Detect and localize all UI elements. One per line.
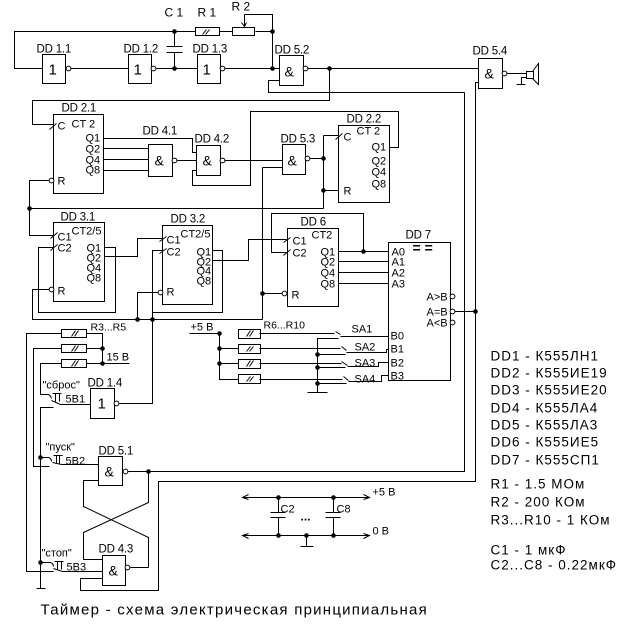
junction DD6 Q1	[361, 249, 366, 254]
potentiometer R2	[233, 28, 255, 36]
wire DD2.1 Q2 to DD4.1	[104, 148, 149, 150]
svg-text:DD 1.3: DD 1.3	[193, 44, 228, 56]
svg-text:&: &	[105, 464, 115, 480]
svg-text:&: &	[109, 563, 119, 579]
capacitor C8	[326, 498, 341, 536]
switch SA2 lever	[342, 347, 347, 351]
svg-text:R2 - 200 КОм: R2 - 200 КОм	[491, 495, 586, 510]
svg-text:CT 2: CT 2	[357, 126, 381, 138]
wire R2 wiper to right node	[245, 15, 273, 69]
svg-text:Q8: Q8	[87, 273, 102, 285]
DD6 R bubble	[282, 291, 287, 296]
wire node to DD5.3 output net	[30, 208, 324, 210]
svg-text:C: C	[58, 121, 66, 133]
inverter DD1.3	[198, 55, 221, 84]
wire DD6 Q2 to A1	[339, 261, 389, 263]
svg-text:Q1: Q1	[372, 142, 387, 154]
stub SA2 ground	[318, 354, 346, 356]
wire +5V feed	[190, 334, 239, 380]
svg-text:SA3: SA3	[355, 358, 376, 370]
DD3.2 R bubble	[158, 290, 163, 295]
svg-text:DD 4.2: DD 4.2	[195, 134, 230, 146]
+5V decoupling rail	[243, 497, 370, 499]
nand gate DD5.3	[283, 145, 306, 175]
svg-text:&: &	[288, 153, 298, 169]
svg-text:"пуск": "пуск"	[46, 442, 76, 454]
svg-text:R6...R10: R6...R10	[264, 320, 306, 332]
DD2.2 clock edge tick	[336, 134, 343, 140]
junction DD3.2 R on rail	[135, 317, 140, 322]
svg-text:SA1: SA1	[352, 324, 373, 336]
DD2.1 clock edge tick	[50, 124, 57, 130]
inverter DD1.2	[129, 55, 152, 84]
svg-text:C2: C2	[58, 243, 72, 255]
wire R7 left	[220, 348, 239, 350]
svg-text:DD 6: DD 6	[301, 217, 326, 229]
svg-text:DD 3.1: DD 3.1	[61, 212, 96, 224]
junction DD6 R	[260, 291, 265, 296]
junction ground 0V	[304, 533, 309, 538]
svg-text:B2: B2	[391, 358, 404, 370]
wire DD5.3 in2 from reset line	[263, 168, 283, 320]
wire DD4.2 in3 from DD2.2 Q1 feedback	[193, 112, 399, 186]
counter DD2.2	[339, 126, 390, 203]
svg-text:C: C	[344, 132, 352, 144]
wire SB2 to DD5.1	[62, 464, 99, 466]
junction R4 right	[100, 346, 105, 351]
junction C8 top	[331, 495, 336, 500]
junction +5 top	[217, 331, 222, 336]
svg-text:R1 - 1.5 МОм: R1 - 1.5 МОм	[491, 477, 586, 492]
ground bar for switch rail	[308, 392, 328, 394]
junction +5 r7	[217, 346, 222, 351]
pushbutton SB1	[49, 395, 52, 399]
svg-text:C 1: C 1	[165, 6, 184, 20]
svg-text:DD 2.1: DD 2.1	[62, 103, 97, 115]
svg-text:CT 2: CT 2	[72, 119, 96, 131]
wire DD5.3 out node	[310, 136, 339, 209]
wire SA2 to B1	[347, 350, 389, 353]
resistor R8	[239, 360, 261, 369]
svg-text:+5 В: +5 В	[373, 487, 396, 499]
DD3.1 C2 edge tick	[51, 245, 58, 251]
wire SB1 to DD1.4	[61, 404, 91, 406]
wire DD3.1 R to reset rail	[33, 290, 263, 320]
nand gate DD4.3	[103, 556, 126, 586]
wire DD3.2 Q2 to DD6 C1	[213, 240, 288, 261]
svg-text:B3: B3	[391, 371, 404, 383]
svg-text:DD 5.3: DD 5.3	[281, 134, 316, 146]
comparator DD7	[389, 243, 451, 381]
svg-text:R: R	[58, 286, 66, 298]
svg-text:C2...С8 - 0.22мкФ: C2...С8 - 0.22мкФ	[491, 558, 618, 573]
svg-text:DD 2.2: DD 2.2	[347, 114, 382, 126]
wire DD1.1 out to DD1.2 in	[71, 68, 129, 70]
svg-text:5В2: 5В2	[66, 456, 86, 468]
svg-text:...: ...	[301, 510, 311, 524]
junction +5 r8	[217, 361, 222, 366]
junction C2 top	[276, 495, 281, 500]
svg-text:C1 - 1 мкФ: C1 - 1 мкФ	[491, 543, 567, 558]
svg-text:Q8: Q8	[321, 279, 336, 291]
junction A=B	[473, 309, 478, 314]
DD3.2 C1 edge tick	[160, 237, 167, 242]
wire DD1.2 out to DD1.3 in	[157, 68, 198, 70]
wire DD4.1 out to DD4.2 in2	[178, 160, 197, 162]
switch SA3 lever	[342, 362, 348, 366]
counter DD2.1	[54, 115, 104, 194]
svg-text:DD 4.3: DD 4.3	[99, 544, 134, 556]
switch SA4 lever	[344, 377, 349, 381]
stub SA4 ground	[318, 383, 347, 385]
wire DD5.1 out long to DD5.2 branch	[128, 93, 465, 472]
counter DD3.2	[163, 226, 213, 305]
junction C1 bottom	[172, 66, 177, 71]
svg-text:Q8: Q8	[197, 276, 212, 288]
svg-text:DD4 - К555ЛА4: DD4 - К555ЛА4	[491, 401, 599, 416]
wire cross-couple DD5.1 out to DD4.3 in	[84, 472, 149, 560]
wire DD5.2 in2 from A-equal-B trigger line	[269, 81, 465, 93]
wire R9 to switch SA4	[260, 379, 343, 381]
wire SB1 ground branch	[41, 408, 54, 589]
DD3.1 R bubble	[49, 287, 54, 292]
svg-text:DD7 - К555СП1: DD7 - К555СП1	[491, 453, 600, 468]
svg-text:C1: C1	[293, 236, 307, 248]
svg-text:SA4: SA4	[355, 374, 376, 386]
capacitor C1	[167, 32, 183, 69]
wire DD4.3 out	[131, 567, 149, 569]
svg-text:DD5 - К555ЛА3: DD5 - К555ЛА3	[491, 418, 599, 433]
svg-text:R3...R10 - 1 КОм: R3...R10 - 1 КОм	[491, 513, 611, 528]
junction SB3 ground	[38, 560, 43, 565]
svg-text:DD 4.1: DD 4.1	[143, 126, 178, 138]
wire DD1.3 out to DD5.2 input	[223, 68, 280, 70]
svg-text:R3...R5: R3...R5	[91, 322, 127, 334]
wire R5 down to SB1	[41, 364, 62, 395]
svg-text:DD2 - К555ИЕ19: DD2 - К555ИЕ19	[491, 366, 608, 381]
wire SA3 to B2	[348, 363, 389, 367]
svg-text:DD 5.2: DD 5.2	[275, 45, 310, 57]
resistor R5	[62, 360, 87, 368]
svg-text:R: R	[167, 287, 175, 299]
0V rail	[243, 535, 370, 537]
nand gate DD5.1	[99, 457, 123, 486]
svg-text:C2: C2	[281, 504, 295, 516]
nand gate DD4.1	[149, 145, 173, 177]
wire R8 to switch SA3	[260, 363, 342, 365]
nand gate DD4.2	[197, 146, 221, 176]
svg-text:&: &	[285, 64, 295, 80]
wire DD6 Q1 to C2 loop and A0	[272, 214, 389, 253]
wire R3-R5 right common	[87, 334, 130, 364]
wire DD4.3 in3 from A=B	[81, 312, 476, 591]
svg-text:SA2: SA2	[355, 342, 376, 354]
switch common ground rail	[318, 339, 339, 393]
svg-text:R: R	[292, 290, 300, 302]
wire R1 to R2	[220, 31, 233, 33]
DD3.2 C2 edge tick	[160, 249, 167, 254]
wire DD2.1 R to reset node	[30, 181, 54, 236]
junction R5 right	[100, 361, 105, 366]
resistor R3	[62, 330, 87, 338]
svg-text:A3: A3	[392, 279, 405, 291]
wire DD6 Q8 to A3	[339, 283, 389, 285]
inverter DD1.4	[91, 389, 115, 419]
wire SB3 to DD4.3	[63, 571, 103, 573]
wire DD3.1 Q1 to C2 loop	[39, 248, 116, 313]
wire SB3 upper from ground chain	[41, 562, 51, 564]
DD7 A>B bubble	[450, 294, 455, 299]
wire DD5.2 out to DD5.4 in1	[308, 68, 479, 70]
svg-text:R 2: R 2	[232, 0, 251, 14]
resistor R1	[196, 28, 220, 36]
svg-text:1: 1	[203, 62, 211, 79]
svg-text:&: &	[155, 153, 165, 169]
svg-text:Таймер - схема электрическая п: Таймер - схема электрическая принципиаль…	[41, 602, 428, 619]
junction R2 right	[270, 29, 275, 34]
counter DD6	[288, 229, 339, 307]
stub SA3 ground	[318, 367, 346, 369]
svg-text:R 1: R 1	[198, 6, 217, 20]
svg-text:DD 3.2: DD 3.2	[171, 214, 206, 226]
svg-text:1: 1	[98, 396, 106, 413]
pushbutton SB3	[51, 563, 54, 567]
wire DD6 Q4 to A2	[339, 272, 389, 274]
resistor R4	[62, 345, 87, 353]
wire DD3.2 R to reset rail	[138, 293, 158, 320]
svg-text:15 В: 15 В	[107, 352, 130, 364]
svg-text:A<B: A<B	[427, 318, 448, 330]
junction DD5.2 out branch	[327, 66, 332, 71]
svg-text:C2: C2	[167, 247, 181, 259]
svg-text:B1: B1	[391, 344, 404, 356]
svg-text:1: 1	[49, 62, 57, 79]
junction SB2 ground	[38, 455, 43, 460]
DD6 C1 edge tick	[284, 238, 291, 243]
svg-text:==: ==	[413, 240, 437, 256]
capacitor C2	[271, 498, 286, 536]
svg-text:CT2: CT2	[312, 230, 333, 242]
wire: feedback top rail from C1 node to DD1.1 input	[15, 32, 196, 69]
junction DD5.3 out	[321, 156, 326, 161]
junction DD1.4 output on rail	[150, 317, 155, 322]
svg-text:DD6 - К555ИЕ5: DD6 - К555ИЕ5	[491, 435, 600, 450]
DD7 A=B bubble	[450, 309, 455, 314]
wire R7 to switch SA2	[260, 348, 341, 350]
svg-text:Q8: Q8	[86, 165, 101, 177]
wire DD3.2 Q1 to C2 loop	[153, 251, 223, 313]
pushbutton SB2	[49, 458, 52, 462]
DD6 C2 edge tick	[284, 250, 291, 256]
svg-text:"сброс": "сброс"	[43, 380, 80, 392]
svg-text:C2: C2	[293, 248, 307, 260]
wire DD2.1 Q8 to DD4.1	[104, 170, 149, 172]
DD2.1 R bubble	[49, 178, 54, 183]
switch SA1 lever	[336, 332, 341, 335]
wire DD2.1 Q1 to DD4.2 in1	[104, 139, 197, 153]
resistor R6	[239, 330, 261, 339]
svg-text:Q4: Q4	[372, 167, 387, 179]
DD7 A<B bubble	[450, 320, 455, 325]
wire DD2.1 Q4 to DD4.1	[104, 159, 149, 161]
wire DD5.4 out to speaker	[507, 73, 527, 75]
inverter DD1.1	[43, 55, 66, 84]
svg-text:+5 В: +5 В	[191, 322, 214, 334]
wire loop leg to reset rail	[152, 313, 154, 320]
wire DD5.4 in2 from A=B	[476, 83, 479, 312]
wire cross-couple DD4.3 out to DD5.1 in	[84, 481, 149, 568]
junction C2 bottom	[276, 533, 281, 538]
svg-text:C8: C8	[337, 504, 351, 516]
svg-text:"стоп": "стоп"	[42, 548, 72, 560]
wire DD4.2 out to DD5.3 in1	[225, 160, 283, 162]
junction R2 node on main wire	[270, 66, 275, 71]
svg-text:CT2/5: CT2/5	[72, 226, 102, 238]
svg-text:DD 5.4: DD 5.4	[473, 46, 508, 58]
wire SB2 upper from ground chain	[41, 457, 49, 459]
svg-text:0 В: 0 В	[373, 526, 390, 538]
R2 wiper arrow	[244, 15, 246, 27]
junction DD2.2 R branch	[321, 188, 326, 193]
wire DD1.4 out up to reset rail	[120, 320, 153, 404]
junction C1 top	[172, 29, 177, 34]
wire R3 down to SB3	[27, 334, 62, 572]
svg-text:&: &	[203, 153, 213, 169]
svg-text:&: &	[485, 66, 495, 82]
wire R6 to switch SA1	[260, 333, 335, 335]
wire A=B output	[455, 311, 476, 313]
wire R2 right terminal	[256, 31, 273, 33]
counter DD3.1	[54, 223, 105, 302]
svg-text:DD1 - К555ЛН1: DD1 - К555ЛН1	[491, 349, 600, 364]
wire SA1 to B0	[341, 336, 389, 338]
ground symbol 0V rail	[301, 536, 314, 547]
wire SA4 to B3	[349, 376, 389, 382]
svg-text:DD 1.1: DD 1.1	[37, 44, 72, 56]
nand gate DD5.2	[280, 56, 304, 86]
svg-text:DD 1.2: DD 1.2	[124, 44, 159, 56]
wire R4 down to SB2	[34, 349, 62, 467]
svg-text:1: 1	[134, 62, 142, 79]
svg-text:Q8: Q8	[372, 179, 387, 191]
speaker ground	[517, 78, 527, 85]
junction R node	[27, 206, 32, 211]
svg-text:B0: B0	[391, 331, 404, 343]
wire branch down to DD2.1 clock	[33, 69, 330, 125]
svg-text:CT2/5: CT2/5	[181, 229, 211, 241]
svg-text:DD 1.4: DD 1.4	[88, 378, 123, 390]
junction DD5.1 out	[146, 469, 151, 474]
DD3.1 C1 edge tick	[51, 233, 58, 239]
junction C8 bottom	[331, 533, 336, 538]
svg-text:C1: C1	[167, 235, 181, 247]
ground bar chain bottom	[37, 588, 46, 590]
svg-text:5В1: 5В1	[66, 394, 86, 406]
wire R8 left	[220, 363, 239, 365]
svg-text:R: R	[344, 186, 352, 198]
speaker	[527, 72, 534, 79]
resistor R9	[239, 375, 261, 384]
wire DD6 R to reset line	[263, 293, 283, 295]
svg-text:DD3 - К555ИЕ20: DD3 - К555ИЕ20	[491, 383, 608, 398]
svg-text:DD 5.1: DD 5.1	[99, 446, 134, 458]
resistor R7	[239, 345, 261, 354]
svg-text:A>B: A>B	[427, 292, 448, 304]
svg-text:R: R	[58, 176, 66, 188]
nand gate DD5.4	[479, 59, 503, 89]
wire DD3.1 Q2 to DD3.2 C1	[105, 239, 163, 257]
